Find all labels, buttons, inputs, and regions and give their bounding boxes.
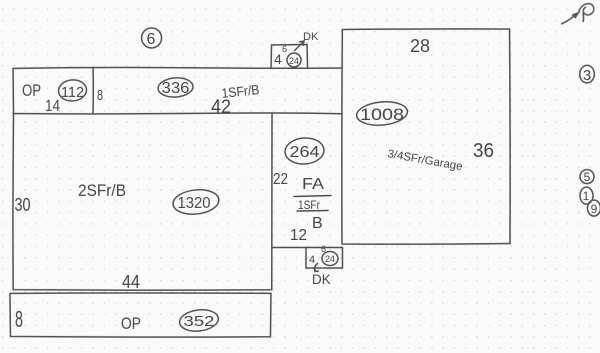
circled 3 margin	[580, 65, 595, 83]
svg-text:1: 1	[583, 189, 590, 203]
svg-text:36: 36	[473, 140, 494, 162]
svg-text:12: 12	[290, 227, 307, 244]
deck box top	[271, 44, 308, 68]
svg-text:3: 3	[583, 67, 591, 84]
svg-text:OP: OP	[121, 314, 141, 333]
circled 24 top deck	[287, 53, 301, 67]
circled 1 margin	[580, 187, 593, 204]
circled 1320 area	[172, 188, 220, 217]
svg-text:44: 44	[122, 272, 140, 292]
circled 336 area	[157, 77, 193, 98]
svg-text:24: 24	[325, 254, 335, 264]
svg-text:8: 8	[97, 87, 103, 104]
FA fraction line 2	[297, 209, 328, 212]
svg-text:1320: 1320	[177, 195, 210, 212]
deck box bottom	[306, 248, 343, 269]
svg-text:336: 336	[162, 80, 190, 97]
porch divider OP box	[92, 68, 94, 114]
svg-text:30: 30	[14, 195, 30, 215]
svg-text:1008: 1008	[360, 105, 404, 124]
circled 352 area	[178, 308, 219, 334]
svg-text:OP: OP	[22, 82, 41, 100]
svg-text:B: B	[312, 215, 323, 232]
circled 5 margin	[580, 170, 594, 184]
svg-text:DK: DK	[312, 272, 331, 287]
svg-text:28: 28	[410, 36, 430, 56]
circled 264 area	[284, 137, 325, 166]
bottom porch strip	[10, 293, 271, 337]
circled 112 area	[58, 79, 88, 102]
circled 1008 area	[356, 100, 409, 127]
svg-text:22: 22	[273, 171, 288, 188]
svg-text:6: 6	[282, 44, 287, 54]
flourish top right	[561, 4, 594, 24]
circled 6 scale note	[142, 28, 162, 48]
FA fraction line 1	[294, 195, 331, 196]
svg-text:8: 8	[15, 306, 23, 332]
svg-text:9: 9	[591, 202, 598, 216]
svg-text:2SFr/B: 2SFr/B	[78, 182, 126, 200]
top strip outline (1SFr/B wing)	[13, 67, 342, 114]
main house outline	[13, 114, 272, 290]
svg-text:DK: DK	[303, 31, 319, 43]
circled 24 bottom deck	[322, 252, 338, 266]
garage outline	[342, 29, 510, 244]
svg-text:42: 42	[211, 97, 231, 118]
svg-text:6: 6	[147, 31, 156, 48]
svg-text:4: 4	[309, 254, 315, 266]
circled 9 margin	[587, 200, 600, 216]
arrow to DK top	[294, 41, 304, 51]
svg-text:5: 5	[584, 170, 591, 184]
middle section bottom wall	[272, 246, 342, 248]
svg-text:264: 264	[290, 144, 320, 161]
svg-text:1SFr: 1SFr	[298, 198, 320, 212]
svg-text:FA: FA	[302, 176, 325, 193]
svg-text:14: 14	[45, 98, 60, 115]
svg-text:112: 112	[61, 85, 84, 101]
svg-text:352: 352	[183, 313, 214, 330]
svg-text:4: 4	[274, 51, 282, 67]
svg-text:3/4SFr/Garage: 3/4SFr/Garage	[386, 148, 463, 173]
svg-text:24: 24	[289, 56, 299, 66]
arrow tick bottom deck	[314, 263, 319, 272]
svg-text:6: 6	[321, 244, 326, 254]
